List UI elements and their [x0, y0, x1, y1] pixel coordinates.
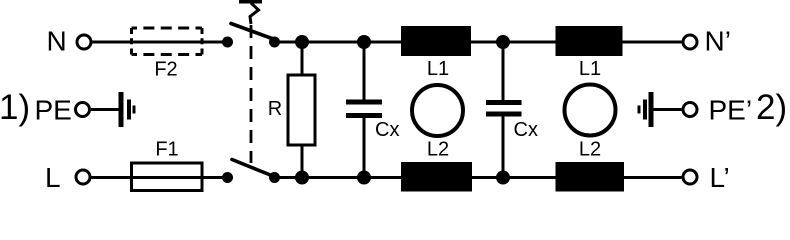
node junction bottom of R	[295, 171, 309, 185]
ground (left, earth symbol)	[119, 92, 136, 127]
node junction bottom of Cx2	[496, 171, 510, 185]
choke 1 winding L2 (bottom)	[401, 162, 472, 192]
svg-text:R: R	[268, 98, 282, 120]
node junction top of Cx1	[357, 35, 371, 49]
terminal N'	[683, 35, 697, 49]
svg-text:L1: L1	[427, 58, 449, 80]
value label L2 (choke 2)	[579, 139, 601, 161]
fuse F2 (optional, dashed)	[132, 28, 203, 55]
choke 1 core	[412, 85, 463, 136]
fuse F1	[132, 163, 203, 191]
svg-text:N: N	[47, 26, 67, 57]
terminal N	[77, 35, 91, 49]
choke 1 winding L1 (top)	[401, 26, 471, 56]
value label Cx (second)	[514, 119, 538, 141]
switch S actuator spring zigzag	[250, 3, 259, 24]
label 2)	[756, 88, 787, 127]
svg-text:PE: PE	[35, 95, 72, 126]
svg-text:Cx: Cx	[514, 119, 538, 141]
label PE	[35, 95, 72, 126]
choke 2 winding L2 (bottom)	[556, 162, 625, 192]
svg-text:L: L	[45, 162, 61, 193]
resistor R	[288, 75, 315, 145]
capacitor Cx2	[486, 100, 522, 117]
terminal PE	[76, 103, 90, 117]
label L'	[710, 162, 730, 193]
terminal PE'	[683, 103, 697, 117]
choke 2 core	[565, 85, 616, 136]
switch pole S1 blade	[231, 24, 278, 41]
wire junction to resistor top	[301, 42, 304, 75]
terminal L'	[683, 170, 697, 184]
switch pole S2 contact dot left	[222, 172, 233, 183]
switch S actuator bar	[239, 0, 262, 4]
switch pole S2 contact dot right	[269, 172, 280, 183]
svg-text:2): 2)	[756, 88, 787, 127]
choke 2 winding L1 (top)	[556, 26, 623, 56]
svg-text:L’: L’	[710, 162, 730, 193]
svg-text:Cx: Cx	[375, 119, 399, 141]
capacitor Cx1	[346, 100, 382, 119]
svg-text:PE’: PE’	[709, 95, 753, 126]
switch pole S1 contact dot left	[222, 37, 233, 48]
value label F1	[155, 139, 178, 161]
value label Cx (first)	[375, 119, 399, 141]
wire capacitor Cx2 bottom plate to junction	[502, 116, 505, 178]
wire choke 2 to terminal N'	[623, 41, 682, 44]
wire resistor bottom to junction	[301, 145, 304, 178]
wire PE to ground	[91, 108, 119, 111]
value label L2 (choke 1)	[427, 139, 449, 161]
value label R	[268, 98, 282, 120]
label 1)	[0, 88, 30, 127]
wire ground to terminal PE'	[654, 108, 682, 111]
svg-text:N’: N’	[705, 26, 731, 57]
wire capacitor Cx1 bottom plate to junction	[363, 118, 366, 178]
label PE'	[709, 95, 753, 126]
wire choke 1 to junction Cx2 (top)	[471, 41, 556, 44]
ground (right, earth symbol)	[638, 92, 654, 127]
svg-text:L2: L2	[427, 139, 449, 161]
label L	[45, 162, 61, 193]
wire junction to capacitor Cx1 top plate	[363, 42, 366, 100]
switch pole S2 blade	[232, 160, 277, 178]
node junction top of R	[295, 35, 309, 49]
wire switch S2 to choke winding L2	[275, 176, 402, 179]
wire switch S1 to choke winding L1	[275, 41, 402, 44]
terminal L	[76, 170, 90, 184]
wire L terminal to switch contact (through F1)	[92, 176, 228, 179]
svg-text:L1: L1	[579, 58, 601, 80]
node junction bottom of Cx1	[357, 171, 371, 185]
value label L1 (choke 1)	[427, 58, 449, 80]
label N'	[705, 26, 731, 57]
value label L1 (choke 2)	[579, 58, 601, 80]
wire choke 2 to terminal L'	[624, 176, 682, 179]
wire N terminal to switch contact (through F2)	[93, 41, 228, 44]
svg-text:L2: L2	[579, 139, 601, 161]
wire junction to capacitor Cx2 top plate	[502, 42, 505, 100]
svg-text:1): 1)	[0, 88, 30, 127]
node junction top of Cx2	[496, 35, 510, 49]
switch S coupling link (dashed)	[250, 25, 253, 163]
label N	[47, 26, 67, 57]
svg-text:F1: F1	[155, 139, 178, 161]
svg-text:F2: F2	[154, 59, 177, 81]
switch pole S1 contact dot right	[269, 37, 280, 48]
value label F2	[154, 59, 177, 81]
wire choke 1 to junction Cx2 (bottom)	[472, 176, 556, 179]
